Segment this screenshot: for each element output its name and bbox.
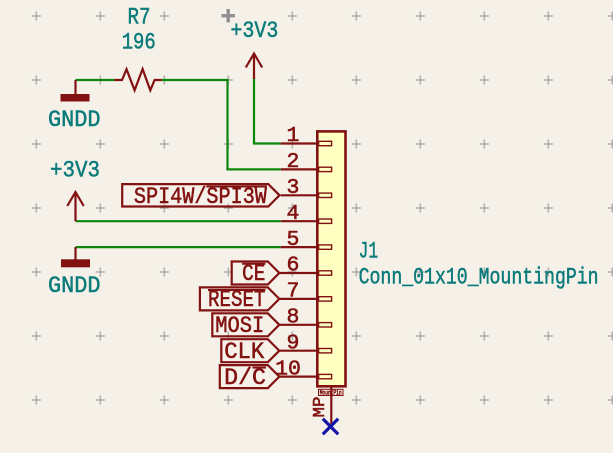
J1 pin 9 [279, 350, 317, 352]
svg-text:CLK: CLK [224, 339, 264, 365]
svg-text:SPI4W/SPI3W: SPI4W/SPI3W [134, 184, 267, 210]
no-connect X on MP pin [323, 419, 338, 434]
wire +3V3 down to pin1 row [253, 78, 255, 144]
J1 pin 1 [281, 142, 318, 144]
J1 pin 6 [279, 272, 317, 274]
ground GNDD top [61, 80, 90, 102]
global label CLK [221, 339, 279, 365]
power +3V3 top [246, 54, 262, 80]
svg-text:D/C: D/C [224, 365, 266, 391]
J1 pin 3 [281, 194, 318, 196]
svg-text:196: 196 [122, 30, 156, 56]
svg-text:Conn_01x10_MountingPin: Conn_01x10_MountingPin [359, 264, 599, 290]
svg-text:3: 3 [287, 176, 300, 200]
wire corner down to pin2 row [226, 79, 228, 169]
svg-text:2: 2 [287, 150, 300, 174]
svg-text:CE: CE [242, 261, 265, 287]
wire GNDD to R7 [76, 79, 115, 81]
J1 pin 8 [279, 324, 317, 326]
J1 pin 2 [281, 168, 318, 170]
ground GNDD left [61, 247, 90, 267]
svg-text:10: 10 [275, 357, 301, 381]
J1 pin 10 [279, 376, 317, 378]
global label MOSI [212, 313, 279, 339]
J1 pin 4 [281, 220, 318, 222]
svg-text:9: 9 [287, 331, 300, 355]
svg-text:+3V3: +3V3 [50, 158, 100, 184]
wire +3V3 to pin 4 [76, 220, 281, 222]
J1 mounting pin MP [311, 386, 343, 425]
global label CE [232, 261, 280, 287]
global label D/C [220, 365, 279, 391]
global label RESET [200, 287, 279, 313]
power +3V3 left [67, 192, 83, 221]
resistor R7 [114, 69, 162, 90]
svg-text:MOSI: MOSI [215, 313, 264, 339]
wire to pin 1 [253, 142, 281, 144]
svg-text:8: 8 [287, 306, 300, 330]
svg-text:RESET: RESET [208, 287, 265, 313]
svg-text:GNDD: GNDD [48, 107, 101, 133]
connector J1 body [317, 131, 345, 386]
svg-text:R7: R7 [128, 4, 151, 30]
svg-text:GNDD: GNDD [48, 273, 101, 299]
svg-text:4: 4 [287, 202, 300, 226]
svg-text:MP: MP [311, 397, 330, 418]
svg-text:+3V3: +3V3 [230, 18, 278, 44]
svg-text:7: 7 [287, 280, 300, 304]
svg-text:J1: J1 [359, 239, 379, 265]
svg-text:1: 1 [287, 124, 300, 148]
global label SPI4W/SPI3W [122, 184, 279, 210]
J1 pin 5 [281, 246, 318, 248]
wire to pin 2 [226, 168, 280, 170]
wire R7 to corner [162, 79, 228, 81]
J1 pin 7 [279, 298, 317, 300]
wire GNDD to pin 5 [76, 246, 281, 248]
svg-text:5: 5 [287, 228, 300, 252]
svg-text:6: 6 [287, 254, 300, 278]
